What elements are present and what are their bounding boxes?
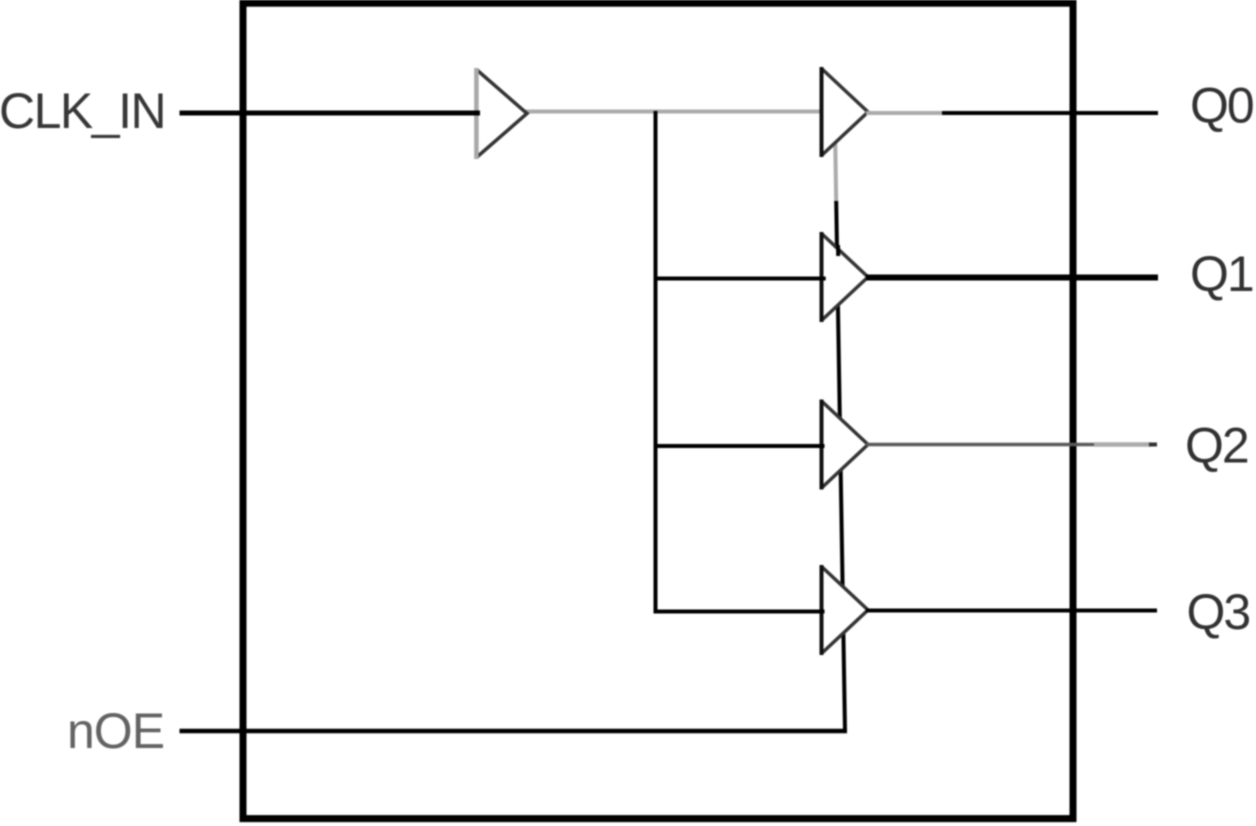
svg-text:Q3: Q3 — [1187, 584, 1250, 640]
wire stub poke into Q2 buffer — [815, 444, 825, 448]
wire stub to Q1 buffer — [654, 277, 824, 281]
buffer U3 (Q1) — [822, 232, 869, 322]
wire Q0 output gray segment — [866, 111, 944, 115]
svg-text:nOE: nOE — [67, 703, 164, 759]
buffer U1 input buffer — [476, 68, 527, 159]
svg-text:CLK_IN: CLK_IN — [0, 83, 165, 139]
svg-text:Q2: Q2 — [1185, 418, 1248, 474]
buffer U2 (Q0) — [822, 67, 869, 157]
wire Q0 output black segment — [942, 111, 1158, 115]
svg-text:Q1: Q1 — [1190, 246, 1253, 302]
wire Q2 output light-gray segment — [1094, 442, 1151, 447]
wire enable riser (black) — [836, 201, 845, 731]
buffer U5 (Q3) — [822, 565, 869, 655]
wire clock net U1 to Q0 buffer (gray) — [525, 110, 823, 114]
wire nOE — [180, 729, 848, 734]
buffer U4 (Q2) — [822, 400, 869, 490]
wire enable riser overshoot inside Q1 buffer — [836, 245, 840, 256]
wire stub to Q3 buffer — [654, 610, 824, 614]
wire stub to Q2 buffer — [654, 444, 824, 448]
wire CLK_IN input — [180, 111, 481, 116]
wire clock trunk vertical — [654, 111, 658, 612]
svg-text:Q0: Q0 — [1190, 78, 1253, 134]
wire Q3 output — [866, 609, 1157, 613]
chip outline box — [243, 3, 1073, 818]
wire enable riser (gray upper part) — [835, 139, 836, 203]
wire CLK_IN overlap at U1 input edge — [462, 111, 480, 116]
wire stub poke into Q3 buffer — [815, 610, 825, 614]
wire Q2 output end tick — [1149, 443, 1157, 447]
wire Q1 output (thick) — [866, 275, 1158, 281]
wire Q2 output dark-gray segment — [866, 443, 1096, 447]
wire stub poke into Q1 buffer — [815, 277, 826, 281]
